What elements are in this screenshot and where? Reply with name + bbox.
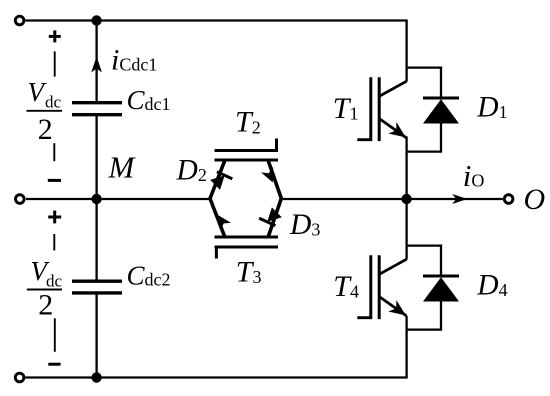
wire hexagon lower-left edge (T3 emitter) [210, 199, 225, 238]
wire hexagon upper-left edge (D2 branch) [210, 160, 225, 199]
svg-text:2: 2 [38, 113, 53, 146]
svg-text:Cdc1: Cdc1 [127, 85, 171, 115]
svg-text:Cdc2: Cdc2 [127, 261, 171, 291]
current arrow iO [452, 194, 467, 204]
svg-text:2: 2 [38, 289, 53, 322]
polarity dash lower bottom [54, 318, 56, 352]
polarity dash lower top [53, 234, 55, 251]
svg-text:D1: D1 [476, 92, 507, 124]
wire dc bus upper (P junction to Cdc1) [95, 21, 97, 104]
minus sign lower source [48, 363, 60, 366]
wire hexagon upper-right edge (T2 emitter) [268, 160, 281, 199]
wire D1 bottom stub [406, 123, 442, 152]
transistor T1 (IGBT) [357, 77, 406, 141]
svg-text:T1: T1 [333, 92, 359, 125]
wire D4 bottom stub [406, 301, 442, 330]
terminal bottom-left [15, 373, 24, 382]
svg-text:T4: T4 [333, 270, 359, 303]
wire hexagon lower-right edge (D3 branch) [268, 199, 281, 238]
terminal top-left [15, 16, 24, 25]
capacitor Cdc2 [72, 281, 122, 293]
wire Cdc1 to M junction [95, 115, 97, 200]
diode D3 [259, 207, 282, 225]
svg-text:dc: dc [45, 93, 62, 112]
wire bottom rail N [25, 316, 406, 378]
wire middle rail M-left [26, 198, 210, 200]
transistor T3 (IGBT, horizontal) [215, 237, 279, 259]
plus sign upper source [49, 30, 61, 42]
svg-text:O: O [524, 183, 546, 216]
wire Cdc2 to N junction [95, 293, 97, 378]
svg-text:iO: iO [463, 158, 485, 193]
wire D4 top stub [406, 246, 442, 277]
T3 emitter arrow [218, 215, 231, 230]
minus sign upper source [48, 179, 61, 182]
wire top rail P to T1 corner [25, 21, 406, 82]
svg-text:iCdc1: iCdc1 [111, 44, 157, 77]
terminal middle-left [15, 195, 24, 204]
svg-text:D3: D3 [289, 209, 320, 241]
svg-text:T2: T2 [235, 106, 261, 139]
svg-text:D2: D2 [176, 155, 207, 187]
wire D1 top stub [406, 68, 442, 99]
svg-text:M: M [108, 150, 137, 185]
node junction output [401, 194, 411, 204]
svg-text:D4: D4 [476, 270, 507, 302]
node junction N [91, 372, 101, 382]
wire M junction to Cdc2 [95, 199, 97, 281]
wire output node to T4 collector [405, 199, 407, 260]
diode D2 [210, 172, 232, 190]
capacitor Cdc1 [72, 103, 122, 115]
wire output to terminal O [407, 198, 503, 200]
wire middle rail to output node [281, 198, 407, 200]
diode D4 [423, 276, 459, 302]
polarity dash upper top [54, 51, 56, 76]
diode D1 [423, 98, 459, 124]
wire T1 emitter to output node [405, 137, 407, 200]
plus sign lower source [48, 211, 61, 224]
node junction P [91, 15, 101, 25]
svg-text:dc: dc [46, 271, 63, 290]
node junction M [91, 194, 101, 204]
transistor T4 (IGBT) [357, 255, 406, 319]
terminal O [504, 195, 513, 204]
svg-text:T3: T3 [236, 255, 262, 288]
transistor T2 (IGBT, horizontal) [215, 139, 279, 161]
current arrow iCdc1 [91, 57, 102, 73]
T2 emitter arrow [261, 167, 273, 182]
label Vdc/2 lower [27, 256, 63, 322]
polarity dash upper bottom [53, 143, 55, 161]
label Vdc/2 upper [27, 77, 63, 146]
